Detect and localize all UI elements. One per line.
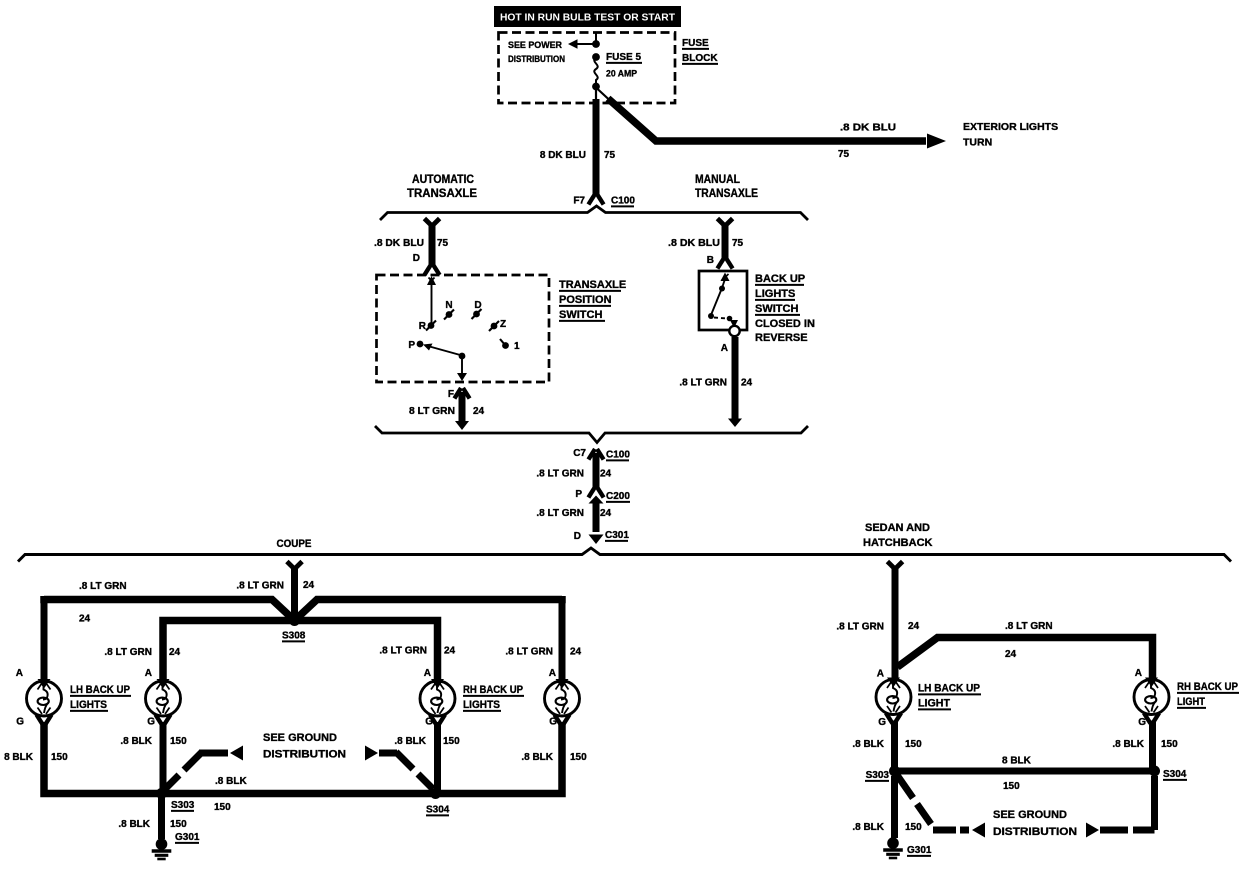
svg-text:D: D xyxy=(474,300,481,311)
svg-text:.8 DK BLU: .8 DK BLU xyxy=(668,238,720,249)
svg-text:24: 24 xyxy=(169,647,181,658)
svg-text:A: A xyxy=(145,668,152,679)
svg-text:C7: C7 xyxy=(573,448,586,459)
svg-text:S308: S308 xyxy=(282,631,306,642)
svg-text:.8 BLK: .8 BLK xyxy=(852,822,884,833)
svg-text:MANUAL: MANUAL xyxy=(695,172,740,186)
svg-text:SEDAN AND: SEDAN AND xyxy=(865,522,930,534)
svg-text:G: G xyxy=(147,717,155,728)
svg-text:LIGHT: LIGHT xyxy=(918,698,950,710)
svg-text:75: 75 xyxy=(732,238,744,249)
svg-text:BLOCK: BLOCK xyxy=(682,53,718,64)
svg-text:.8 BLK: .8 BLK xyxy=(120,736,152,747)
svg-text:F7: F7 xyxy=(573,196,585,207)
svg-text:150: 150 xyxy=(905,822,922,833)
svg-text:G: G xyxy=(1138,717,1146,728)
svg-text:Z: Z xyxy=(500,319,506,330)
svg-text:1: 1 xyxy=(514,341,520,352)
svg-text:P: P xyxy=(408,340,415,351)
svg-text:SWITCH: SWITCH xyxy=(755,303,798,315)
svg-text:24: 24 xyxy=(444,646,456,657)
svg-text:TURN: TURN xyxy=(963,137,992,149)
svg-text:HOT IN RUN BULB TEST OR START: HOT IN RUN BULB TEST OR START xyxy=(500,13,675,24)
svg-text:G301: G301 xyxy=(907,845,932,856)
svg-text:150: 150 xyxy=(170,819,187,830)
svg-text:BACK UP: BACK UP xyxy=(755,273,805,285)
svg-text:.8 BLK: .8 BLK xyxy=(852,739,884,750)
svg-text:150: 150 xyxy=(1003,781,1020,792)
svg-text:A: A xyxy=(1135,668,1142,679)
svg-text:F: F xyxy=(448,389,454,400)
svg-text:POSITION: POSITION xyxy=(559,294,612,306)
svg-text:.8 DK BLU: .8 DK BLU xyxy=(840,123,896,134)
svg-text:S304: S304 xyxy=(1163,769,1187,780)
svg-text:.8 LT GRN: .8 LT GRN xyxy=(836,622,884,633)
svg-text:G301: G301 xyxy=(175,832,200,843)
svg-text:G: G xyxy=(425,717,433,728)
svg-text:LIGHTS: LIGHTS xyxy=(755,288,795,300)
svg-text:75: 75 xyxy=(838,149,850,160)
svg-text:SEE POWER: SEE POWER xyxy=(508,40,562,51)
svg-text:SEE GROUND: SEE GROUND xyxy=(263,732,337,744)
svg-text:D: D xyxy=(574,531,581,542)
svg-text:.8 BLK: .8 BLK xyxy=(521,752,553,763)
svg-text:A: A xyxy=(549,668,556,679)
svg-text:P: P xyxy=(575,489,582,500)
svg-text:.8 BLK: .8 BLK xyxy=(1112,739,1144,750)
svg-text:24: 24 xyxy=(600,508,612,519)
svg-text:G: G xyxy=(16,717,24,728)
svg-text:FUSE: FUSE xyxy=(682,38,709,49)
svg-text:.8 LT GRN: .8 LT GRN xyxy=(1005,621,1053,632)
svg-text:24: 24 xyxy=(570,647,582,658)
svg-text:DISTRIBUTION: DISTRIBUTION xyxy=(263,749,346,761)
svg-text:HATCHBACK: HATCHBACK xyxy=(863,537,933,549)
svg-text:150: 150 xyxy=(1161,739,1178,750)
svg-text:150: 150 xyxy=(443,736,460,747)
svg-text:LIGHTS: LIGHTS xyxy=(70,699,107,711)
svg-text:DISTRIBUTION: DISTRIBUTION xyxy=(508,54,565,65)
svg-text:B: B xyxy=(707,255,714,266)
svg-text:8 DK BLU: 8 DK BLU xyxy=(540,150,586,161)
svg-text:D: D xyxy=(413,253,420,264)
svg-text:TRANSAXLE: TRANSAXLE xyxy=(407,186,477,200)
svg-text:.8 LT GRN: .8 LT GRN xyxy=(536,469,584,480)
svg-text:A: A xyxy=(16,668,23,679)
svg-text:.8 LT GRN: .8 LT GRN xyxy=(236,581,284,592)
svg-text:G: G xyxy=(549,717,557,728)
svg-text:.8 LT GRN: .8 LT GRN xyxy=(536,508,584,519)
svg-text:24: 24 xyxy=(741,378,753,389)
svg-text:C100: C100 xyxy=(606,450,630,461)
svg-text:.8 LT GRN: .8 LT GRN xyxy=(505,647,553,658)
svg-text:24: 24 xyxy=(600,469,612,480)
svg-text:RH BACK UP: RH BACK UP xyxy=(1177,681,1238,693)
svg-text:150: 150 xyxy=(570,752,587,763)
svg-text:SWITCH: SWITCH xyxy=(559,309,602,321)
svg-text:A: A xyxy=(877,669,884,680)
svg-text:.8 LT GRN: .8 LT GRN xyxy=(679,378,727,389)
svg-text:C200: C200 xyxy=(606,491,630,502)
svg-text:C301: C301 xyxy=(605,530,629,541)
svg-text:24: 24 xyxy=(473,406,485,417)
svg-text:EXTERIOR LIGHTS: EXTERIOR LIGHTS xyxy=(963,121,1058,133)
svg-text:S304: S304 xyxy=(426,805,450,816)
svg-text:75: 75 xyxy=(604,150,616,161)
svg-text:150: 150 xyxy=(170,736,187,747)
svg-text:150: 150 xyxy=(905,739,922,750)
svg-text:TRANSAXLE: TRANSAXLE xyxy=(695,186,758,200)
svg-text:.8 LT GRN: .8 LT GRN xyxy=(379,646,427,657)
svg-text:A: A xyxy=(424,668,431,679)
svg-text:S303: S303 xyxy=(866,770,890,781)
svg-text:.8 BLK: .8 BLK xyxy=(118,819,150,830)
svg-text:C100: C100 xyxy=(611,196,635,207)
svg-text:DISTRIBUTION: DISTRIBUTION xyxy=(993,826,1077,838)
svg-text:.8 BLK: .8 BLK xyxy=(394,736,426,747)
svg-text:.8 DK BLU: .8 DK BLU xyxy=(374,238,424,249)
svg-text:24: 24 xyxy=(79,614,91,625)
svg-text:FUSE 5: FUSE 5 xyxy=(606,52,641,63)
svg-text:TRANSAXLE: TRANSAXLE xyxy=(559,279,626,291)
svg-text:R: R xyxy=(419,321,427,332)
svg-text:150: 150 xyxy=(51,752,68,763)
svg-text:24: 24 xyxy=(1005,649,1017,660)
svg-text:COUPE: COUPE xyxy=(277,538,312,550)
svg-text:SEE GROUND: SEE GROUND xyxy=(993,809,1067,821)
svg-text:20 AMP: 20 AMP xyxy=(606,69,638,80)
svg-text:REVERSE: REVERSE xyxy=(755,332,808,344)
svg-text:LH BACK UP: LH BACK UP xyxy=(70,684,130,696)
svg-text:AUTOMATIC: AUTOMATIC xyxy=(412,172,474,186)
svg-text:75: 75 xyxy=(437,238,449,249)
svg-text:N: N xyxy=(445,300,452,311)
svg-text:8 BLK: 8 BLK xyxy=(1002,756,1032,767)
svg-text:8 BLK: 8 BLK xyxy=(4,752,34,763)
svg-text:CLOSED IN: CLOSED IN xyxy=(755,318,815,330)
svg-text:150: 150 xyxy=(214,802,231,813)
svg-text:LIGHTS: LIGHTS xyxy=(463,699,500,711)
svg-text:S303: S303 xyxy=(171,800,195,811)
svg-text:8 LT GRN: 8 LT GRN xyxy=(409,406,455,417)
svg-text:A: A xyxy=(721,343,728,354)
svg-text:.8 LT GRN: .8 LT GRN xyxy=(104,647,152,658)
svg-text:24: 24 xyxy=(908,621,920,632)
svg-text:RH BACK UP: RH BACK UP xyxy=(463,684,523,696)
svg-text:G: G xyxy=(878,717,886,728)
svg-text:.8 BLK: .8 BLK xyxy=(215,776,247,787)
svg-text:LIGHT: LIGHT xyxy=(1177,696,1205,708)
svg-text:24: 24 xyxy=(303,580,315,591)
svg-text:.8 LT GRN: .8 LT GRN xyxy=(79,581,127,592)
svg-text:LH BACK UP: LH BACK UP xyxy=(918,683,980,695)
